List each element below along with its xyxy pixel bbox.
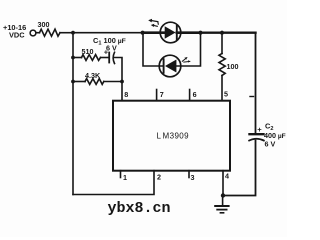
resistor R4 100 xyxy=(219,54,225,76)
node LED right xyxy=(198,31,202,35)
node left rail / 4.3K xyxy=(71,80,75,84)
svg-text:1: 1 xyxy=(123,173,127,182)
wire C1 to pin8 rail xyxy=(114,58,122,101)
pin 1 stub xyxy=(120,171,122,178)
pin 4 wire xyxy=(222,171,224,196)
LED D2 triangle xyxy=(165,60,176,73)
LED D2 circle xyxy=(159,55,181,77)
wire node A to LED node (top run) xyxy=(73,32,143,34)
svg-text:+: + xyxy=(257,125,262,134)
pin 7 stub xyxy=(156,90,158,101)
svg-text:+: + xyxy=(104,48,109,57)
node 4.3K right xyxy=(120,80,124,84)
wire top run to R4 node xyxy=(201,32,223,34)
IC U1 box xyxy=(113,101,230,171)
wire left rail xyxy=(72,33,74,195)
node LED left xyxy=(141,31,145,35)
svg-text:6 V: 6 V xyxy=(265,140,276,149)
pin 3 stub xyxy=(188,171,190,178)
resistor R1 300 xyxy=(40,29,61,36)
pin 6 stub xyxy=(189,90,191,101)
wire 4.3K to pin8 rail xyxy=(104,81,122,83)
wire terminal to resistor R1 xyxy=(36,32,40,34)
svg-text:6: 6 xyxy=(193,90,197,99)
capacitor C1 plates xyxy=(108,53,110,63)
wire top run to right corner xyxy=(222,32,256,34)
minus mark xyxy=(250,96,254,98)
capacitor C2 plates xyxy=(250,133,264,135)
resistor R3 4.3K xyxy=(85,79,104,85)
svg-text:100: 100 xyxy=(227,62,239,71)
svg-text:2: 2 xyxy=(157,173,161,182)
svg-text:300: 300 xyxy=(38,20,50,29)
svg-text:5: 5 xyxy=(224,90,228,99)
pin 2 wire xyxy=(73,171,154,195)
wire down to lower LED xyxy=(143,33,164,66)
node left rail / 510 xyxy=(71,56,75,60)
resistor R2 510 xyxy=(82,55,101,61)
node A xyxy=(71,31,75,35)
LED D1 arrows xyxy=(151,21,158,22)
wire through upper LED right xyxy=(177,31,201,34)
node pin4 / ground xyxy=(221,193,225,197)
LED D2 cathode bar xyxy=(163,59,165,73)
wire lower LED to right node xyxy=(176,33,200,66)
ground xyxy=(222,196,224,206)
svg-text:3: 3 xyxy=(191,173,195,182)
svg-text:4: 4 xyxy=(225,172,229,181)
wire C2 to bottom right xyxy=(223,141,256,196)
LED D1 circle xyxy=(160,22,181,43)
wire LED segment thick xyxy=(143,31,165,34)
wire R4 to pin5 xyxy=(221,76,223,101)
wire 510 to C1 xyxy=(101,57,109,59)
wire right rail to C2 xyxy=(255,33,257,134)
svg-text:8: 8 xyxy=(124,90,128,99)
svg-text:ybx8.cn: ybx8.cn xyxy=(108,200,171,217)
input terminal xyxy=(30,30,36,36)
svg-text:7: 7 xyxy=(160,90,164,99)
wire rail to 4.3K xyxy=(73,81,85,83)
node R4 top xyxy=(220,31,224,35)
svg-text:4.3K: 4.3K xyxy=(85,71,101,80)
LED D2 arrows xyxy=(182,58,187,62)
LED D1 cathode bar xyxy=(176,26,178,40)
wire R1 to node A xyxy=(60,32,73,34)
LED D1 triangle xyxy=(165,26,176,38)
svg-text:LM3909: LM3909 xyxy=(157,131,190,140)
wire rail to 510 xyxy=(73,57,82,59)
wire R4 lead top xyxy=(221,33,223,54)
svg-text:510: 510 xyxy=(82,47,94,56)
svg-text:VDC: VDC xyxy=(9,31,25,40)
